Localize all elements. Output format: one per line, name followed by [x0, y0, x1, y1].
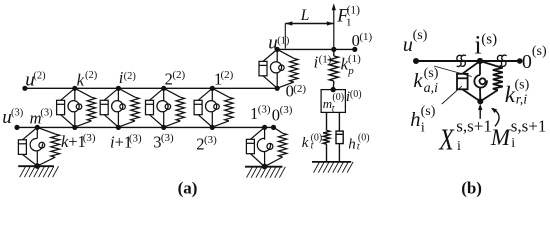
damper piston b — [457, 77, 468, 79]
label Mi(s,s+1) — [490, 116, 546, 151]
label 0(3) — [272, 104, 293, 125]
damper ht(0) branch — [336, 112, 343, 161]
label u(3) — [2, 107, 24, 128]
svg-text:(0): (0) — [350, 89, 362, 100]
svg-text:r,i: r,i — [516, 92, 527, 107]
svg-text:1: 1 — [346, 17, 352, 29]
node 1(3) — [262, 125, 267, 130]
svg-text:(s): (s) — [413, 28, 428, 43]
leader from hi to damper — [442, 86, 462, 104]
label k(2) — [77, 70, 98, 90]
node 2(3) — [210, 125, 215, 130]
svg-text:(s): (s) — [424, 66, 439, 81]
viscoelastic element 2 between 2(2) and 3(3) — [146, 88, 185, 127]
spring kt(0) branch — [323, 112, 330, 161]
label 1(2) — [214, 69, 234, 89]
label F1(1) — [336, 5, 360, 29]
break symbol left of i(s) — [457, 55, 466, 66]
ground under 1(3) element — [245, 167, 285, 178]
svg-text:(s): (s) — [481, 32, 497, 48]
label kr,i(s) — [505, 77, 530, 107]
label 1(3) — [250, 103, 271, 122]
svg-text:h: h — [410, 109, 420, 131]
label mt(0) — [323, 92, 344, 114]
viscoelastic element panel b below i(s) — [457, 61, 503, 101]
label i+1(3) — [110, 132, 142, 151]
label hi(s) — [410, 104, 436, 136]
spring kp(1) below i(1) — [329, 49, 338, 89]
node 0(1) — [352, 47, 357, 52]
svg-text:(3): (3) — [161, 132, 174, 144]
hinge inner circle b — [480, 78, 486, 84]
junction m element ground — [34, 163, 40, 169]
viscoelastic element between u(1) and 0(2) — [259, 49, 298, 88]
svg-text:(0): (0) — [332, 92, 344, 103]
damper box b (axial spring + damper) — [457, 74, 468, 90]
node i(1) — [331, 47, 336, 52]
svg-text:p: p — [347, 65, 354, 77]
label 2(2) — [165, 69, 186, 89]
force F1(1) arrow — [333, 7, 335, 49]
hinge link lower b — [479, 88, 481, 102]
node 0(2) — [275, 86, 280, 91]
label ka,i(s) — [413, 66, 438, 96]
node 3(3) — [161, 125, 166, 130]
node u(3) — [14, 125, 19, 130]
svg-text:(1): (1) — [347, 5, 361, 17]
label 2(3) — [196, 134, 217, 153]
label u(2) — [25, 70, 46, 91]
svg-text:m: m — [323, 96, 332, 111]
node u(s) — [413, 58, 419, 64]
svg-text:(3): (3) — [258, 103, 271, 115]
node k(2) — [72, 86, 77, 91]
svg-text:(3): (3) — [40, 108, 53, 119]
svg-text:s,s+1: s,s+1 — [456, 117, 492, 136]
node u(1) — [275, 47, 280, 52]
damper rod slant b — [462, 61, 480, 74]
moment arrow M — [493, 109, 499, 127]
mass box mt(0) — [321, 90, 345, 113]
node bottom of panel-b element — [477, 98, 483, 104]
node m(3) — [35, 125, 40, 130]
dimension tick at u(1) — [284, 24, 286, 49]
svg-text:(2): (2) — [221, 69, 234, 81]
label 0(2) — [286, 82, 307, 101]
label kt(0) — [302, 133, 322, 152]
svg-text:(s): (s) — [515, 77, 530, 92]
label i(0) — [346, 89, 362, 105]
label u(1) — [268, 33, 290, 54]
svg-text:(b): (b) — [461, 179, 482, 198]
svg-text:s,s+1: s,s+1 — [511, 116, 547, 135]
caption (a) — [178, 179, 198, 198]
svg-text:(3): (3) — [280, 104, 293, 116]
label i(s) — [474, 31, 497, 60]
dimension line L — [285, 23, 334, 25]
label 0(s) — [522, 44, 547, 73]
svg-text:(0): (0) — [358, 133, 370, 144]
leader from ka,i to damper — [434, 66, 472, 77]
svg-text:(3): (3) — [204, 134, 217, 146]
svg-text:(a): (a) — [178, 179, 198, 198]
wire level-2 line u(2) to 0(2) — [25, 87, 277, 89]
node i(2) — [116, 86, 121, 91]
svg-text:(3): (3) — [129, 132, 142, 144]
hinge link upper b — [479, 61, 481, 75]
node u(2) — [22, 86, 27, 91]
label kp(1) — [341, 53, 362, 77]
node 2(2) — [161, 86, 166, 91]
viscoelastic element i between i(2) and i+1(3) — [100, 88, 139, 127]
svg-text:M: M — [490, 125, 512, 150]
svg-text:(2): (2) — [172, 69, 185, 81]
wire level-3 line u(3) to 0(3) — [17, 126, 274, 128]
svg-text:L: L — [300, 7, 310, 24]
viscoelastic element below 1(3) to ground — [246, 127, 286, 166]
svg-text:(3): (3) — [11, 108, 24, 119]
label Xi(s,s+1) — [438, 117, 492, 156]
node k+1(3) — [72, 125, 77, 130]
svg-text:k: k — [413, 70, 423, 92]
node i+1(3) — [116, 125, 121, 130]
svg-text:(s): (s) — [532, 44, 547, 59]
junction 1(3) element ground — [262, 164, 268, 170]
label m(3) — [30, 108, 54, 128]
force arrow X below node — [479, 108, 481, 119]
viscoelastic element below m(3) to ground — [18, 127, 59, 166]
ground under mass system — [312, 162, 353, 173]
svg-text:(1): (1) — [319, 54, 332, 66]
label L — [300, 7, 310, 24]
label ht(0) — [348, 133, 369, 153]
svg-text:i: i — [421, 121, 425, 136]
node 1(2) — [210, 86, 215, 91]
svg-text:i: i — [457, 139, 461, 154]
wire level-1 line u(1) to 0(1) — [277, 48, 355, 50]
dimension arrow left — [285, 21, 292, 25]
svg-text:(1): (1) — [359, 31, 372, 43]
svg-text:(2): (2) — [124, 71, 137, 82]
label 3(3) — [153, 132, 174, 151]
spring upper slant b — [480, 61, 498, 67]
svg-text:X: X — [438, 123, 455, 156]
svg-text:(2): (2) — [85, 70, 98, 81]
svg-text:a,i: a,i — [424, 81, 439, 96]
label 0(1) — [352, 31, 373, 50]
svg-text:t: t — [332, 104, 335, 115]
svg-text:i: i — [511, 136, 515, 151]
svg-text:(0): (0) — [311, 133, 323, 144]
svg-text:(1): (1) — [348, 53, 361, 65]
svg-text:k: k — [77, 70, 85, 89]
break symbol right of i(s) — [497, 55, 506, 66]
node 0(3) — [271, 125, 276, 130]
svg-text:(2): (2) — [293, 83, 306, 95]
node on mass top — [331, 87, 336, 92]
svg-text:u: u — [403, 34, 413, 56]
ground under m(3) element — [18, 166, 58, 177]
dimension arrow right — [327, 21, 334, 25]
damper lower slant b — [462, 89, 480, 101]
svg-text:(2): (2) — [33, 70, 46, 81]
svg-text:(1): (1) — [277, 35, 290, 46]
svg-text:(3): (3) — [83, 132, 96, 144]
svg-text:h: h — [348, 136, 356, 152]
spring lower slant b — [480, 90, 498, 101]
spring zigzag b kr,i — [493, 67, 503, 91]
label i(2) — [119, 68, 137, 87]
svg-text:k: k — [302, 135, 309, 151]
viscoelastic element 1 between 1(2) and 2(3) — [194, 88, 233, 127]
wire panel-b line u(s) to 0(s) — [416, 60, 520, 62]
label k+1(3) — [61, 132, 96, 151]
label i(1) — [314, 52, 332, 71]
hinge outer circle b — [474, 75, 487, 88]
label u(s) — [403, 28, 428, 56]
svg-text:0: 0 — [522, 51, 532, 73]
svg-text:(s): (s) — [421, 104, 436, 119]
viscoelastic element k between k(2) and k+1(3) — [57, 88, 96, 127]
node 0(s) — [517, 58, 523, 64]
caption (b) — [461, 179, 482, 198]
node i(s) — [477, 58, 483, 64]
